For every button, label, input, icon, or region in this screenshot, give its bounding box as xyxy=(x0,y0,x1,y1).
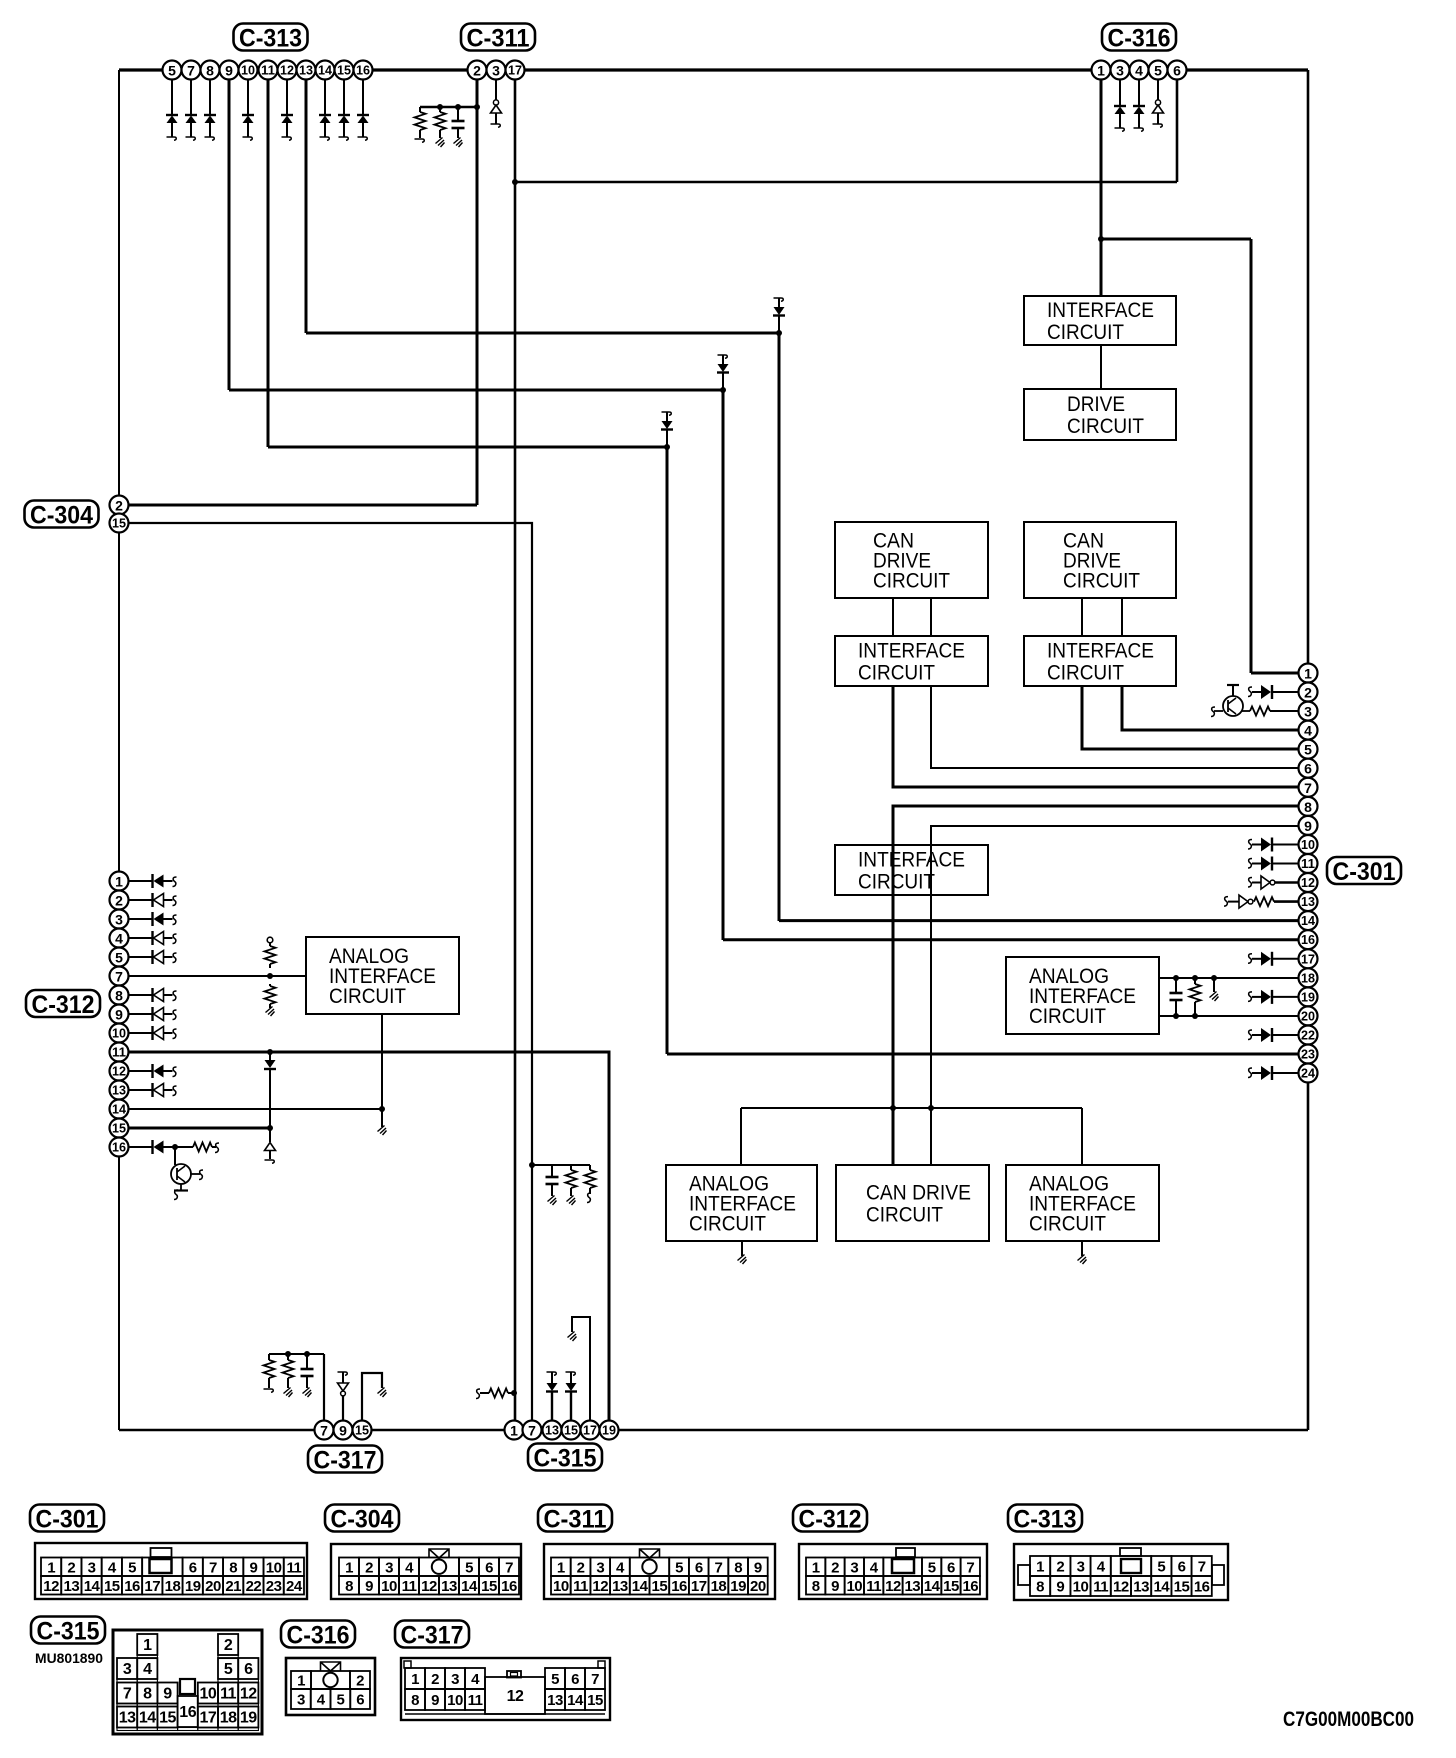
connector label C-311 xyxy=(461,24,535,51)
svg-text:4: 4 xyxy=(870,1559,879,1576)
svg-text:CIRCUIT: CIRCUIT xyxy=(1067,415,1144,438)
C-301 pin 1 xyxy=(1299,664,1318,683)
svg-text:7: 7 xyxy=(320,1423,328,1439)
svg-text:5: 5 xyxy=(675,1559,683,1576)
C-313 pin 15 xyxy=(335,61,354,80)
connector label C-315 xyxy=(528,1444,602,1471)
diode from C-312 pin 10 xyxy=(129,1026,177,1040)
wire to C-301 pin 1 xyxy=(1251,672,1299,675)
C-312 pin 5 xyxy=(110,948,129,967)
svg-text:2: 2 xyxy=(831,1559,839,1576)
C-313 pin 10 xyxy=(239,61,258,80)
svg-text:INTERFACE: INTERFACE xyxy=(858,640,965,663)
transistor Q1 at C-301 pin 3 xyxy=(1211,685,1299,717)
svg-text:4: 4 xyxy=(115,931,123,947)
svg-text:14: 14 xyxy=(461,1578,478,1595)
diode from C-312 pin 13 xyxy=(129,1083,177,1097)
svg-text:7: 7 xyxy=(187,63,195,79)
C-301 pin 9 xyxy=(1299,816,1318,835)
ECU main box bottom border xyxy=(119,1429,1308,1431)
junction node xyxy=(1098,236,1104,242)
svg-text:C-317: C-317 xyxy=(401,1622,464,1650)
svg-text:13: 13 xyxy=(545,1424,559,1438)
svg-text:MU801890: MU801890 xyxy=(35,1650,103,1666)
svg-text:18: 18 xyxy=(165,1578,181,1595)
svg-text:2: 2 xyxy=(365,1559,373,1576)
svg-text:14: 14 xyxy=(567,1692,584,1709)
svg-text:16: 16 xyxy=(501,1578,517,1595)
svg-text:13: 13 xyxy=(119,1710,136,1727)
C-312 pin 9 xyxy=(110,1005,129,1024)
diode from C-301 pin 10 xyxy=(1248,838,1299,852)
svg-text:6: 6 xyxy=(571,1671,579,1688)
svg-text:7: 7 xyxy=(123,1686,132,1703)
wire C-313 pin 11 horizontal to x667 xyxy=(268,446,667,449)
wire bus to U10 xyxy=(740,1108,742,1165)
connector label C-304 xyxy=(25,501,99,528)
svg-text:5: 5 xyxy=(128,1559,136,1576)
zener to ground below pin15 line xyxy=(265,1128,276,1163)
svg-text:19: 19 xyxy=(1301,990,1315,1004)
pinout table C-313 xyxy=(1014,1544,1228,1600)
C-315 pin 17 xyxy=(581,1421,600,1440)
svg-text:3: 3 xyxy=(1116,63,1124,79)
C-313 pin 7 xyxy=(182,61,201,80)
svg-text:3: 3 xyxy=(123,1661,132,1678)
svg-text:14: 14 xyxy=(632,1578,649,1595)
wire branch y1354 xyxy=(269,1353,324,1355)
svg-text:7: 7 xyxy=(528,1423,536,1439)
pinout label C-312 xyxy=(793,1505,867,1532)
svg-text:8: 8 xyxy=(734,1559,742,1576)
diode to ground from C-313 pin 14 xyxy=(319,70,331,140)
C-304 pin 15 xyxy=(110,514,129,533)
svg-text:6: 6 xyxy=(485,1559,493,1576)
svg-text:9: 9 xyxy=(115,1007,123,1023)
capacitor to ground xyxy=(452,107,465,147)
svg-text:C-304: C-304 xyxy=(30,502,93,530)
connector label C-313 xyxy=(234,24,308,51)
ground below U10 xyxy=(738,1241,747,1264)
resistor after diode C-312 pin 16 xyxy=(175,1143,219,1153)
connector label C-312 xyxy=(26,990,100,1017)
pinout label C-311 xyxy=(538,1505,612,1532)
wire C-313 pin 9 vertical xyxy=(228,70,231,390)
connector label C-316 xyxy=(1102,24,1176,51)
diode from C-301 pin 24 xyxy=(1248,1066,1299,1080)
junction node xyxy=(267,1125,273,1131)
svg-text:6: 6 xyxy=(189,1559,197,1576)
svg-text:5: 5 xyxy=(1154,63,1162,79)
wire U8 bottom lead xyxy=(381,1014,383,1127)
C-312 pin 15 xyxy=(110,1119,129,1138)
junction node xyxy=(1173,975,1179,981)
pinout table C-312 xyxy=(799,1544,987,1599)
svg-text:1: 1 xyxy=(411,1671,419,1688)
ECU main box right border xyxy=(1307,70,1310,1430)
svg-text:CIRCUIT: CIRCUIT xyxy=(1047,662,1124,685)
diode to ground from C-313 pin 15 xyxy=(338,70,350,140)
svg-text:24: 24 xyxy=(286,1578,303,1595)
svg-text:12: 12 xyxy=(885,1578,901,1595)
C-301 pin 10 xyxy=(1299,835,1318,854)
svg-text:16: 16 xyxy=(124,1578,140,1595)
svg-text:10: 10 xyxy=(381,1578,397,1595)
diode from C-301 pin 22 xyxy=(1248,1028,1299,1042)
svg-text:10: 10 xyxy=(112,1027,126,1041)
svg-text:21: 21 xyxy=(225,1578,241,1595)
svg-text:15: 15 xyxy=(481,1578,497,1595)
svg-text:13: 13 xyxy=(547,1692,563,1709)
svg-text:5: 5 xyxy=(168,63,176,79)
capacitor between pins 18/20 xyxy=(1170,978,1183,1016)
svg-text:11: 11 xyxy=(573,1578,588,1595)
svg-text:8: 8 xyxy=(229,1559,237,1576)
diode from C-312 pin 5 xyxy=(129,950,177,964)
svg-text:13: 13 xyxy=(64,1578,80,1595)
C-316 pin 6 xyxy=(1168,61,1187,80)
C-312 pin 14 xyxy=(110,1100,129,1119)
wire U5 to C-301 pin 7 xyxy=(893,686,1299,787)
wire C-311 pin 2 to C-304 pin 2 xyxy=(119,504,477,507)
svg-text:17: 17 xyxy=(200,1710,217,1727)
svg-text:1: 1 xyxy=(1304,666,1312,682)
junction node xyxy=(511,1390,517,1396)
diode to ground from C-313 pin 7 xyxy=(185,70,197,140)
svg-text:CAN DRIVE: CAN DRIVE xyxy=(866,1182,971,1205)
C-315 pin 19 xyxy=(600,1421,619,1440)
C-301 pin 2 xyxy=(1299,683,1318,702)
C-313 pin 11 xyxy=(259,61,278,80)
svg-text:13: 13 xyxy=(441,1578,457,1595)
svg-text:5: 5 xyxy=(1304,742,1312,758)
diode to ground from C-313 pin 8 xyxy=(204,70,216,140)
resistor to ground (hook) xyxy=(415,107,426,142)
C-316 pin 4 xyxy=(1130,61,1149,80)
C-312 pin 10 xyxy=(110,1024,129,1043)
resistor to ground at x571 xyxy=(566,1165,577,1205)
svg-text:20: 20 xyxy=(1301,1009,1315,1023)
svg-text:CIRCUIT: CIRCUIT xyxy=(329,985,406,1008)
junction node xyxy=(720,387,726,393)
C-301 pin 16 xyxy=(1299,930,1318,949)
diode from C-312 pin 12 xyxy=(129,1064,177,1078)
C-313 pin 16 xyxy=(354,61,373,80)
svg-text:13: 13 xyxy=(612,1578,628,1595)
svg-text:7: 7 xyxy=(115,969,123,985)
svg-text:15: 15 xyxy=(943,1578,959,1595)
wire C-317 pin 7 vertical xyxy=(323,1354,325,1430)
C-316 pin 1 xyxy=(1092,61,1111,80)
svg-text:11: 11 xyxy=(1301,857,1315,871)
svg-text:9: 9 xyxy=(831,1578,839,1595)
svg-text:CIRCUIT: CIRCUIT xyxy=(873,570,950,593)
svg-text:14: 14 xyxy=(139,1710,156,1727)
resistor to hook at x590 xyxy=(585,1165,596,1203)
svg-text:11: 11 xyxy=(1093,1579,1108,1596)
svg-text:9: 9 xyxy=(225,63,233,79)
capacitor to ground at x552 xyxy=(546,1165,559,1205)
block U12 ANALOG INTERFACE CIRCUIT (bottom right) xyxy=(1006,1165,1159,1241)
diode to ground above node x779 xyxy=(773,298,785,333)
pull-up resistor chain at x270 xyxy=(265,937,276,1016)
svg-text:15: 15 xyxy=(104,1578,120,1595)
svg-text:2: 2 xyxy=(577,1559,585,1576)
svg-text:10: 10 xyxy=(1073,1579,1089,1596)
wire C-313 pin 13 vertical xyxy=(305,70,308,333)
diode from C-312 pin 2 xyxy=(129,893,177,907)
svg-text:3: 3 xyxy=(850,1559,858,1576)
wire x931 through U7 xyxy=(930,845,932,895)
svg-text:4: 4 xyxy=(471,1671,480,1688)
zener to ground from C-316 pin 5 xyxy=(1153,70,1164,127)
C-301 pin 24 xyxy=(1299,1064,1318,1083)
wire x723 vertical down to C-301 pin 16 line xyxy=(722,390,725,940)
svg-text:5: 5 xyxy=(465,1559,473,1576)
junction node xyxy=(267,1049,273,1055)
svg-text:2: 2 xyxy=(431,1671,439,1688)
wire branch at y107 xyxy=(420,106,477,108)
block U8 ANALOG INTERFACE CIRCUIT (left) xyxy=(306,937,459,1014)
svg-text:C-312: C-312 xyxy=(799,1506,862,1534)
wire C-301 pin 23 long line xyxy=(667,1053,1299,1056)
svg-text:2: 2 xyxy=(1304,685,1312,701)
C-301 pin 22 xyxy=(1299,1026,1318,1045)
svg-text:12: 12 xyxy=(240,1686,257,1703)
wire x667 vertical down to C-301 pin 23 line xyxy=(666,447,669,1054)
block U3 CAN DRIVE CIRCUIT (left) xyxy=(835,522,988,598)
svg-text:16: 16 xyxy=(356,64,370,78)
svg-text:13: 13 xyxy=(904,1578,920,1595)
svg-text:12: 12 xyxy=(1113,1579,1129,1596)
wire C-311 pin 17 vertical xyxy=(514,70,517,1430)
block U7 INTERFACE CIRCUIT (middle) xyxy=(835,845,988,895)
svg-text:3: 3 xyxy=(596,1559,604,1576)
block U2 DRIVE CIRCUIT xyxy=(1024,389,1176,440)
svg-text:C-316: C-316 xyxy=(287,1622,350,1650)
wire y182 to C-316 pin 6 xyxy=(515,181,1177,184)
svg-text:13: 13 xyxy=(112,1084,126,1098)
diode from C-315 pin 15 xyxy=(565,1372,577,1430)
C-301 pin 3 xyxy=(1299,702,1318,721)
svg-text:2: 2 xyxy=(224,1637,233,1654)
junction node xyxy=(776,330,782,336)
C-311 pin 17 xyxy=(506,61,525,80)
C-312 pin 8 xyxy=(110,986,129,1005)
svg-text:15: 15 xyxy=(1174,1579,1190,1596)
wire U3 to U5 right xyxy=(930,598,932,636)
C-313 pin 9 xyxy=(220,61,239,80)
svg-text:3: 3 xyxy=(115,912,123,928)
svg-text:7: 7 xyxy=(505,1559,513,1576)
stub to ground from pin 18 line xyxy=(1210,978,1219,1001)
svg-text:11: 11 xyxy=(402,1578,417,1595)
C-312 pin 3 xyxy=(110,910,129,929)
svg-text:16: 16 xyxy=(112,1141,126,1155)
block U11 CAN DRIVE CIRCUIT (bottom) xyxy=(836,1165,989,1241)
wire U3 to U5 left xyxy=(892,598,894,636)
svg-text:6: 6 xyxy=(1173,63,1181,79)
svg-text:C-315: C-315 xyxy=(37,1618,100,1646)
svg-text:C-311: C-311 xyxy=(544,1506,607,1534)
svg-text:4: 4 xyxy=(405,1559,414,1576)
svg-text:2: 2 xyxy=(473,63,481,79)
diode from C-312 pin 9 xyxy=(129,1007,177,1021)
C-301 pin 5 xyxy=(1299,740,1318,759)
svg-text:13: 13 xyxy=(299,64,313,78)
junction node xyxy=(172,1144,178,1150)
svg-text:6: 6 xyxy=(1304,761,1312,777)
svg-text:17: 17 xyxy=(144,1578,160,1595)
svg-text:10: 10 xyxy=(200,1686,217,1703)
wire C-313 pin 9 horizontal to x723 xyxy=(229,389,723,392)
svg-text:16: 16 xyxy=(962,1578,978,1595)
resistor between pins 18/20 xyxy=(1190,978,1201,1016)
wire bus to U11 right xyxy=(930,1108,932,1165)
svg-text:19: 19 xyxy=(730,1578,746,1595)
pinout label C-313 xyxy=(1008,1505,1082,1532)
svg-text:9: 9 xyxy=(1304,818,1312,834)
svg-text:9: 9 xyxy=(339,1423,347,1439)
wire C-313 pin 11 vertical xyxy=(267,70,270,447)
wire C-312 pin 11 to C-315 pin 19 xyxy=(119,1052,609,1430)
svg-text:6: 6 xyxy=(947,1559,955,1576)
wire C-312 pin 15 line xyxy=(119,1127,270,1130)
svg-text:CIRCUIT: CIRCUIT xyxy=(858,662,935,685)
pinout table C-301 xyxy=(35,1543,307,1599)
svg-text:15: 15 xyxy=(652,1578,668,1595)
svg-text:15: 15 xyxy=(564,1424,578,1438)
svg-text:C-311: C-311 xyxy=(467,25,530,53)
block U10 ANALOG INTERFACE CIRCUIT (bottom left) xyxy=(666,1165,817,1241)
svg-text:9: 9 xyxy=(249,1559,257,1576)
C-301 pin 20 xyxy=(1299,1006,1318,1025)
svg-text:1: 1 xyxy=(47,1559,55,1576)
wire C-304 pin 15 net xyxy=(119,523,532,1430)
svg-text:1: 1 xyxy=(510,1423,518,1439)
svg-text:1: 1 xyxy=(345,1559,353,1576)
C-313 pin 12 xyxy=(278,61,297,80)
svg-text:15: 15 xyxy=(112,1122,126,1136)
svg-text:15: 15 xyxy=(587,1692,603,1709)
svg-text:2: 2 xyxy=(115,893,123,909)
wire C-316 pin 6 vertical xyxy=(1176,70,1179,182)
wire C-301 pin 8 net xyxy=(893,806,1299,1108)
svg-text:19: 19 xyxy=(602,1424,616,1438)
diode+resistor from C-301 pin 13 xyxy=(1224,895,1299,908)
connector label C-317 xyxy=(308,1446,382,1473)
svg-text:C-301: C-301 xyxy=(1333,858,1396,886)
diode to ground from C-313 pin 16 xyxy=(357,70,369,140)
svg-text:DRIVE: DRIVE xyxy=(1067,393,1125,416)
pinout label C-316 xyxy=(281,1621,355,1648)
diode to ground from C-316 pin 4 xyxy=(1133,70,1145,131)
wire C-316 pin 1 vertical xyxy=(1100,70,1103,296)
resistor to ground at x288 xyxy=(283,1354,294,1397)
svg-text:14: 14 xyxy=(1301,914,1315,928)
junction node xyxy=(664,444,670,450)
svg-text:14: 14 xyxy=(1153,1579,1170,1596)
C-313 pin 14 xyxy=(316,61,335,80)
svg-text:10: 10 xyxy=(553,1578,569,1595)
svg-text:3: 3 xyxy=(1304,704,1312,720)
C-317 pin 9 xyxy=(334,1421,353,1440)
junction node xyxy=(890,1105,896,1111)
svg-text:5: 5 xyxy=(336,1692,344,1709)
block U1 INTERFACE CIRCUIT (top right) xyxy=(1024,296,1176,345)
pinout label C-315 xyxy=(31,1617,105,1644)
wire U4 to U6 right xyxy=(1121,598,1123,636)
diode from C-301 pin 11 xyxy=(1248,857,1299,871)
svg-text:1: 1 xyxy=(143,1637,152,1654)
transistor Q2 at C-312 pin 16 xyxy=(171,1147,203,1200)
svg-text:7: 7 xyxy=(715,1559,723,1576)
svg-text:18: 18 xyxy=(1301,971,1315,985)
svg-text:C-316: C-316 xyxy=(1108,25,1171,53)
C-313 pin 13 xyxy=(297,61,316,80)
wire U6 to C-301 pin 4 xyxy=(1122,686,1299,730)
diode from C-301 pin 2 xyxy=(1248,685,1299,699)
wire x779 vertical down to C-301 pin 14 line xyxy=(778,333,781,921)
diode to ground above node x667 xyxy=(661,412,673,447)
C-301 pin 17 xyxy=(1299,949,1318,968)
resistor into C-315 pin 1 line xyxy=(476,1389,514,1399)
svg-text:1: 1 xyxy=(812,1559,820,1576)
connector label C-301 xyxy=(1327,857,1401,884)
svg-text:18: 18 xyxy=(711,1578,727,1595)
junction node xyxy=(512,179,518,185)
svg-text:2: 2 xyxy=(1056,1559,1064,1576)
pinout connector C-315 xyxy=(113,1630,262,1734)
wire branch at y1165 xyxy=(532,1164,590,1166)
svg-text:3: 3 xyxy=(451,1671,459,1688)
block U5 INTERFACE CIRCUIT (left) xyxy=(835,636,988,686)
svg-text:CIRCUIT: CIRCUIT xyxy=(689,1213,766,1236)
svg-text:14: 14 xyxy=(84,1578,101,1595)
svg-text:6: 6 xyxy=(244,1661,253,1678)
svg-text:7: 7 xyxy=(1198,1559,1206,1576)
diode from C-317 pin 9 xyxy=(338,1372,349,1430)
C-312 pin 7 xyxy=(110,967,129,986)
svg-text:5: 5 xyxy=(115,950,123,966)
svg-text:10: 10 xyxy=(266,1559,282,1576)
wire C-312 pin 7 to U8 xyxy=(119,975,306,977)
ground below U8 lead xyxy=(378,1126,387,1136)
C-301 pin 4 xyxy=(1299,721,1318,740)
svg-text:17: 17 xyxy=(508,64,522,78)
diode from C-312 pin 3 xyxy=(129,912,177,926)
svg-text:20: 20 xyxy=(205,1578,221,1595)
svg-text:9: 9 xyxy=(754,1559,762,1576)
ground below U12 xyxy=(1078,1241,1087,1264)
wire U9 to C-301 pin 20 xyxy=(1159,1015,1299,1017)
block U6 INTERFACE CIRCUIT (right) xyxy=(1024,636,1176,686)
svg-text:9: 9 xyxy=(1056,1579,1064,1596)
svg-text:1: 1 xyxy=(115,874,123,890)
resistor to hook at x269 xyxy=(264,1354,275,1392)
svg-text:INTERFACE: INTERFACE xyxy=(1047,299,1154,322)
wire U6 to C-301 pin 5 xyxy=(1082,686,1299,749)
svg-text:CIRCUIT: CIRCUIT xyxy=(1029,1213,1106,1236)
svg-text:19: 19 xyxy=(240,1710,257,1727)
block U4 CAN DRIVE CIRCUIT (right) xyxy=(1024,522,1176,598)
svg-text:12: 12 xyxy=(280,64,294,78)
C-301 pin 13 xyxy=(1299,892,1318,911)
svg-text:4: 4 xyxy=(108,1559,117,1576)
svg-text:3: 3 xyxy=(492,63,500,79)
junction node xyxy=(379,1106,385,1112)
svg-text:12: 12 xyxy=(43,1578,59,1595)
